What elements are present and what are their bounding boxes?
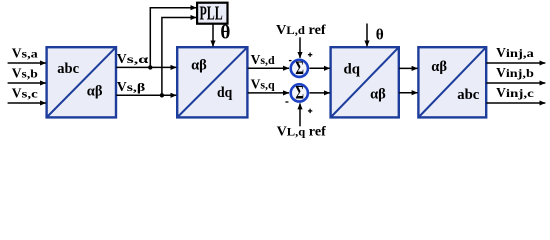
svg-text:αβ: αβ xyxy=(370,86,386,102)
svg-text:VL,q ref: VL,q ref xyxy=(277,124,327,139)
svg-text:Vinj,c: Vinj,c xyxy=(496,85,535,100)
svg-text:PLL: PLL xyxy=(200,3,223,25)
svg-text:Vs,b: Vs,b xyxy=(12,66,38,81)
svg-text:Σ: Σ xyxy=(295,84,304,104)
svg-text:abc: abc xyxy=(57,61,79,77)
svg-text:Σ: Σ xyxy=(295,59,304,79)
svg-text:Vinj,b: Vinj,b xyxy=(496,65,534,80)
svg-text:VL,d ref: VL,d ref xyxy=(276,22,326,37)
svg-text:Vs,a: Vs,a xyxy=(12,46,38,61)
svg-text:Vs,α: Vs,α xyxy=(117,51,149,66)
svg-text:αβ: αβ xyxy=(191,58,207,74)
svg-text:Vs,q: Vs,q xyxy=(251,77,275,92)
svg-text:dq: dq xyxy=(344,61,361,77)
svg-text:αβ: αβ xyxy=(87,84,103,100)
svg-text:Vinj,a: Vinj,a xyxy=(496,45,534,60)
svg-text:Vs,β: Vs,β xyxy=(117,79,145,94)
svg-text:dq: dq xyxy=(217,85,232,101)
svg-text:Vs,c: Vs,c xyxy=(12,86,39,101)
svg-text:θ: θ xyxy=(376,26,384,43)
svg-text:αβ: αβ xyxy=(431,59,447,75)
svg-text:abc: abc xyxy=(457,87,480,103)
svg-text:θ: θ xyxy=(220,22,230,44)
svg-text:Vs,d: Vs,d xyxy=(251,52,275,67)
